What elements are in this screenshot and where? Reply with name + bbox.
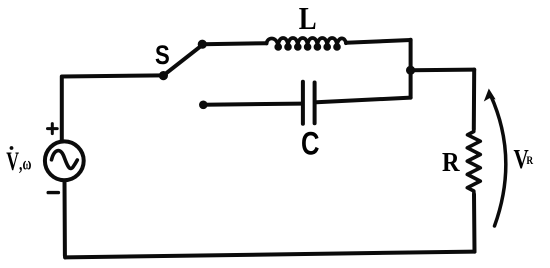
wire (317, 98, 411, 103)
plus sign (48, 124, 58, 134)
svg-text:L: L (299, 2, 317, 36)
wire (472, 70, 476, 129)
svg-text:R: R (442, 147, 460, 177)
inductor L (267, 38, 347, 49)
svg-text:C: C (301, 127, 320, 162)
switch throw node (198, 40, 207, 49)
wire (65, 252, 474, 258)
switch pivot node (159, 71, 168, 80)
resistor R (467, 129, 480, 195)
node capacitor left terminal (199, 101, 208, 110)
wire (63, 180, 68, 257)
wire (409, 40, 413, 70)
svg-text:S: S (155, 41, 170, 71)
wire (472, 195, 477, 252)
arrowhead (484, 89, 496, 102)
capacitor C (303, 82, 315, 124)
wire (346, 40, 411, 43)
v dot (10, 146, 14, 150)
minus sign (48, 191, 58, 194)
wire (62, 75, 163, 141)
wire (411, 68, 475, 73)
svg-text:V,ω: V,ω (6, 147, 31, 176)
wire (409, 70, 413, 97)
node junction (406, 66, 415, 75)
switch S (163, 44, 203, 75)
arrow VR curved (491, 95, 506, 226)
ac source V,w (45, 141, 84, 180)
wire (202, 43, 266, 44)
svg-text:VR: VR (514, 145, 534, 175)
ac source sine wave (52, 151, 78, 169)
wire (203, 104, 301, 105)
